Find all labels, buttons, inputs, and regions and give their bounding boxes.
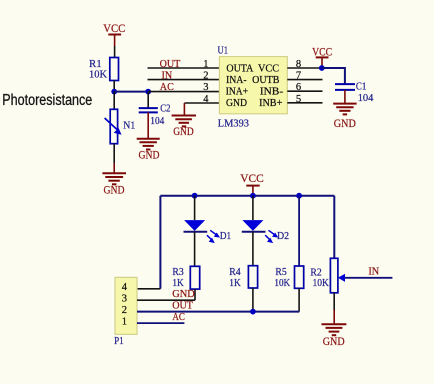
svg-text:Photoresistance: Photoresistance: [2, 92, 92, 109]
svg-text:1K: 1K: [229, 277, 240, 289]
svg-text:INA-: INA-: [226, 74, 247, 86]
node junction R1/N1/AC: [111, 89, 117, 95]
photoresistor N1: [105, 109, 136, 143]
svg-text:8: 8: [296, 59, 301, 70]
ground (below C1): [333, 104, 356, 130]
power symbol VCC (top left): [103, 23, 125, 46]
U1 pin 6 stub: [287, 90, 322, 92]
svg-text:OUT: OUT: [160, 58, 181, 70]
svg-text:VCC: VCC: [258, 62, 279, 74]
potentiometer R2: [310, 258, 345, 293]
node junction R4/OUT: [250, 309, 256, 315]
svg-text:1: 1: [203, 59, 208, 70]
resistor R3: [172, 266, 199, 289]
capacitor C2: [139, 92, 171, 127]
wire R3 to GND net: [194, 289, 196, 300]
svg-text:GND: GND: [172, 288, 195, 300]
svg-text:VCC: VCC: [240, 173, 264, 185]
svg-text:D2: D2: [277, 230, 289, 242]
LED D2: [242, 220, 289, 243]
wire P1 pin1 AC stub: [137, 322, 184, 324]
wire N1 to ground: [113, 144, 115, 163]
svg-text:OUTA: OUTA: [226, 62, 253, 74]
wire D2 to R4: [252, 232, 254, 266]
svg-text:1: 1: [122, 317, 127, 328]
wire C2 to ground: [147, 112, 149, 138]
wire P1 pin2 OUT net: [137, 311, 299, 313]
wire D1 to R3: [194, 232, 196, 267]
wire C1 to ground: [344, 90, 346, 104]
wire pin1 OUT stub: [148, 67, 220, 69]
node junction pin8/VCC: [319, 65, 325, 71]
svg-text:IN: IN: [162, 69, 173, 81]
wire node to N1: [113, 92, 115, 110]
svg-text:6: 6: [296, 82, 301, 93]
svg-text:10K: 10K: [89, 68, 107, 80]
svg-text:104: 104: [358, 92, 374, 104]
svg-text:3: 3: [203, 82, 208, 93]
svg-text:D1: D1: [220, 230, 231, 242]
svg-text:C2: C2: [160, 102, 170, 114]
U1 pin 8 stub: [287, 67, 321, 69]
resistor R4: [229, 266, 257, 289]
svg-text:P1: P1: [114, 335, 124, 347]
node junction R5: [296, 193, 302, 199]
svg-text:U1: U1: [218, 45, 229, 57]
wire pin4 to ground: [184, 102, 219, 104]
svg-text:LM393: LM393: [218, 117, 250, 129]
svg-text:2: 2: [122, 305, 127, 316]
ground (below R2): [322, 324, 347, 348]
svg-text:GND: GND: [104, 185, 125, 197]
svg-text:GND: GND: [323, 336, 345, 348]
svg-text:OUT: OUT: [172, 299, 193, 311]
wire R1 to node: [113, 81, 115, 92]
svg-text:10K: 10K: [313, 277, 329, 289]
svg-text:1K: 1K: [172, 277, 183, 289]
svg-text:N1: N1: [123, 120, 135, 132]
svg-text:INA+: INA+: [226, 86, 248, 98]
wire R2 to ground: [333, 293, 335, 310]
svg-text:VCC: VCC: [103, 23, 125, 35]
wire rail to D2: [252, 196, 254, 220]
resistor R1: [89, 58, 119, 81]
node junction D1: [192, 193, 198, 199]
wire pin3 AC: [148, 91, 219, 93]
svg-text:4: 4: [203, 94, 209, 105]
svg-text:AC: AC: [172, 311, 185, 323]
svg-text:GND: GND: [226, 97, 247, 109]
svg-text:OUTB: OUTB: [252, 74, 279, 86]
svg-text:4: 4: [122, 282, 128, 293]
connector P1 body: [114, 277, 137, 346]
svg-text:GND: GND: [139, 150, 160, 162]
svg-text:10K: 10K: [274, 277, 290, 289]
resistor R5: [274, 266, 303, 289]
wire VCC to R1: [114, 46, 116, 58]
U1 pin 7 stub: [287, 79, 322, 81]
wire node to C2 node: [114, 91, 148, 93]
svg-text:2: 2: [203, 71, 208, 82]
wire R5 down to OUT net: [298, 288, 300, 311]
node junction D2/VCC: [250, 193, 256, 199]
svg-text:5: 5: [296, 94, 301, 105]
wire P1 pin3 GND net: [137, 299, 195, 301]
ground (below C2): [137, 139, 160, 162]
svg-text:GND: GND: [334, 118, 356, 130]
wire VCC rail: [160, 195, 334, 197]
svg-text:INB+: INB+: [259, 97, 282, 109]
wire rail left end down to P1 pin4: [159, 196, 161, 289]
wire rail right end down to R2: [333, 196, 335, 259]
wire pin2 IN stub: [148, 79, 220, 81]
wire R4 to OUT net: [252, 288, 254, 312]
U1 pin 5 stub: [287, 102, 322, 104]
LED D1: [184, 220, 232, 243]
svg-text:3: 3: [122, 294, 127, 305]
capacitor C1: [335, 80, 374, 104]
svg-text:INB-: INB-: [260, 86, 284, 98]
power symbol VCC (bottom): [240, 173, 264, 196]
wire R2 wiper to IN: [345, 277, 392, 279]
wire rail to D1: [194, 196, 196, 220]
wire pin8 node to C1: [322, 68, 345, 84]
power symbol VCC (top right): [312, 46, 332, 68]
wire rail to R5: [298, 196, 300, 266]
svg-text:7: 7: [296, 71, 301, 82]
svg-text:IN: IN: [368, 265, 379, 277]
svg-text:104: 104: [150, 115, 164, 127]
ground (pin 4): [172, 116, 196, 138]
node junction C2: [145, 89, 151, 95]
ground (below N1): [102, 173, 126, 196]
svg-text:AC: AC: [160, 81, 174, 93]
svg-text:C1: C1: [356, 80, 367, 92]
svg-text:GND: GND: [173, 126, 194, 138]
op-amp U1 LM393 body: [218, 45, 288, 130]
